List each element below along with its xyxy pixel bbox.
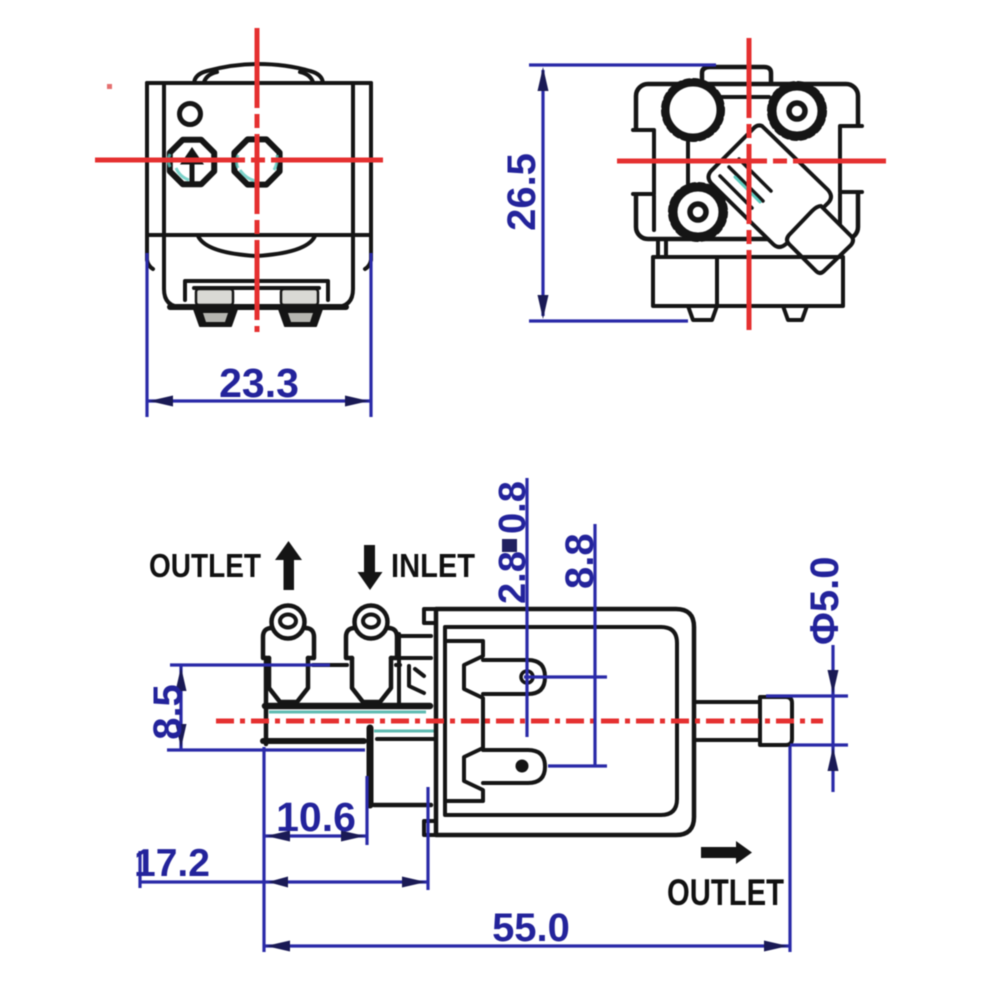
front left port arrow stem [190,164,195,183]
dim 10.6 right arrowhead [341,831,365,842]
dim 23.3 right extension line [369,253,372,417]
teal under plate mid line [269,711,426,714]
dim 8.5 bottom extension [167,748,365,751]
outlet port dome hole [280,615,296,628]
dim 2.8-0.8 pointer horizontal [524,675,607,678]
svg-text:10.6: 10.6 [276,794,356,840]
dim phi5.0 bottom extension [790,743,848,746]
top view vertical centerline [747,38,752,332]
dim 23.3 left extension line [145,253,148,417]
bracket back box top [399,634,431,638]
dim 17.2 left arrowhead [268,877,288,888]
label down arrow [358,545,383,590]
terminal upper [483,660,545,694]
front right port octagon circle [234,139,279,184]
nozzle neck top [694,700,760,704]
dimension 26.5 [529,65,716,321]
nozzle tip [760,697,792,745]
top view nozzle barrel [709,125,832,247]
top view left inner wall line [652,196,656,230]
top view foot right [783,306,807,320]
top view right notch white [840,126,866,192]
front left port octagon circle [170,140,214,184]
dim long left extension (10.6/55.0) [262,747,265,952]
connector molding profile [445,641,483,801]
front pedestal inner line [194,286,319,290]
dim 55.0 right extension [788,746,791,952]
top view base connectors [658,240,666,257]
bracket back box vertical [397,634,401,706]
dim 55.0 dimension line [264,944,790,947]
top view circles connector left [686,140,690,184]
front body outer left edge [147,83,153,269]
dim 26.5 top extension line [529,63,716,66]
terminal lower [483,750,545,783]
dim 17.2 right extension [426,787,429,890]
outlet port collar [263,628,314,658]
top view port A ring [666,83,721,138]
svg-text:Φ5.0: Φ5.0 [803,557,847,645]
dim 26.5 top arrowhead [538,67,549,91]
label right arrow [701,841,752,864]
bracket back box bottom [399,656,431,660]
bracket lower shelf line [377,737,436,741]
front dimension 23.3 [147,253,371,417]
bracket plate top edge segment right [396,663,400,667]
solenoid inner rect [445,627,677,815]
top view port B center hole [789,103,805,119]
svg-text:55.0: 55.0 [492,906,570,950]
front lower smile arc [198,236,315,256]
svg-text:8.8: 8.8 [558,533,602,589]
front horizontal centerline [95,158,383,163]
dim 17.2 left tick [138,851,141,888]
dim 23.3 left arrowhead [149,396,173,407]
dim 8.5 top extension [170,663,330,666]
dim 26.5 bottom extension line [529,319,688,322]
top view right inner wall line [838,194,842,228]
nozzle neck bottom [694,738,760,742]
svg-text:INLET: INLET [391,547,475,584]
top view base divider [715,257,719,306]
svg-text:OUTLET: OUTLET [667,872,784,913]
front dome end hook right [300,72,313,82]
svg-text:26.5: 26.5 [500,153,544,231]
dim 2.8-0.8 vertical line [525,478,528,737]
top view port B ring [772,86,822,136]
front body outer right edge [365,83,371,269]
front foot pad left [196,289,233,305]
dim 10.6 right extension [365,776,368,845]
top view circles connector top [721,95,769,99]
bracket plate left edge [264,658,269,744]
inlet port cylinder [352,658,391,702]
svg-text:0.8: 0.8 [492,481,534,534]
blue dimensions of side view [140,478,848,952]
svg-text:8.5: 8.5 [146,684,190,740]
solenoid outer case [436,609,694,835]
front body inner outline [164,83,353,307]
bracket plate mid thick line [265,703,430,710]
dim phi5.0 upper arrowhead [828,670,839,694]
front small hole circle [180,104,201,125]
dim phi5.0 dimension line [831,645,834,792]
front left port arrow triangle [180,147,204,165]
dim 2.8-0.8 square [502,539,517,552]
terminal upper hole [521,671,533,683]
top view nozzle hatch 2 [729,167,763,201]
teal artifact arcs front circles [169,154,278,181]
top view left notch white [628,130,654,194]
side view red dashed centerline [216,719,823,724]
solenoid cap tab top [424,609,436,623]
front view red centerlines [95,28,383,332]
front foot right [279,309,322,326]
inlet port collar [346,628,397,658]
front base bottom thick line [170,304,346,310]
teal artifact lines [269,712,436,731]
top view horizontal centerline [617,159,886,164]
dim 26.5 bottom arrowhead [538,295,549,319]
dim 55.0 right arrowhead [764,941,788,952]
top view port C ring [673,187,723,237]
front vertical centerline [255,28,260,332]
svg-text:17.2: 17.2 [134,842,210,885]
outlet port cylinder [269,658,308,702]
top view body square [636,84,858,239]
front body top edge [147,81,371,85]
front foot pad right [281,289,318,305]
svg-text:23.3: 23.3 [219,360,299,406]
dim 17.2 dimension line [140,880,428,883]
bracket front wall [367,728,374,805]
top view foot left [688,306,717,320]
svg-text:2.8: 2.8 [492,551,534,604]
top view nozzle hatch 3 [739,159,771,191]
front foot left [194,309,237,326]
front body divider line [147,233,371,237]
top view nozzle hatch 1 [720,176,752,208]
svg-text:OUTLET: OUTLET [149,547,261,584]
dim 8.5 bottom arrowhead [176,724,187,748]
front pedestal rail [185,281,328,300]
dim 10.6 left arrowhead [266,831,290,842]
inlet port dome [355,606,388,639]
top view nozzle tip [787,206,853,273]
dim phi5.0 lower arrowhead [828,747,839,771]
dim 8.5 top arrowhead [176,667,187,691]
dim 26.5 dimension line [541,70,544,316]
bracket plate bottom thick line [263,738,364,744]
outlet port dome [272,606,305,639]
top view tab bump [702,67,771,83]
bracket clip [409,666,424,693]
top view port C center hole [690,204,706,220]
dim 10.6 dimension line [264,834,367,837]
front foot right grey core [288,313,313,322]
inlet port dome hole [363,615,379,628]
front foot left grey core [203,313,228,322]
dim 23.3 dimension line [147,399,371,402]
terminal lower dot [516,760,529,773]
dim 55.0 left arrowhead [266,941,290,952]
dim 17.2 right arrowhead [402,877,426,888]
stray red speck artifact [107,84,112,89]
top view red centerlines [617,38,886,332]
dim 8.5 dimension line [179,665,182,750]
top view left notch outline [633,130,654,194]
front body top dome bump [194,64,323,83]
bracket bottom arm [374,803,431,808]
bracket plate top edge segment mid [313,663,347,667]
top view right notch outline [840,126,862,192]
top view base rect [653,257,843,306]
label up arrow [275,541,302,590]
front dome end hook left [204,72,217,82]
dim 8.8 vertical line [593,524,596,765]
dim 23.3 right arrowhead [345,396,369,407]
solenoid cap tab bottom [424,821,436,835]
dim 8.8 pointer horizontal [548,764,607,767]
teal right of wall [374,730,436,733]
dim phi5.0 top extension [766,694,848,697]
